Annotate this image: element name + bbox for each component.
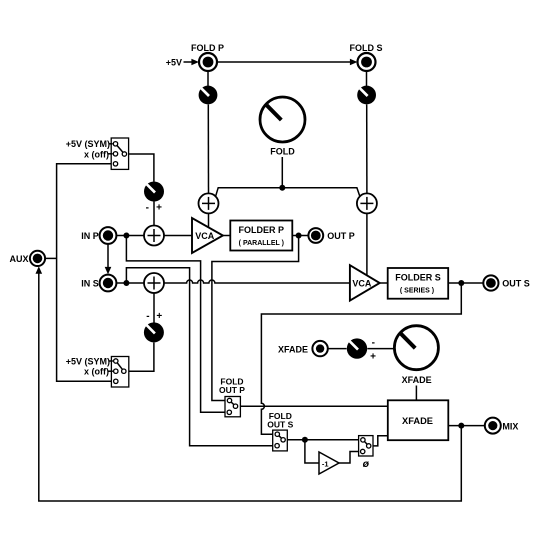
attenuverter knob SYM P [144, 182, 164, 202]
wire S summer to VCA S (hops over three verticals) [164, 280, 350, 283]
wire FOLDER P to OUT P [292, 235, 308, 237]
wire P CV summer to VCA P [208, 213, 210, 227]
attenuator knob FOLD S [357, 86, 376, 105]
wire FOLD knob to CV bus [281, 157, 283, 188]
wire SYM S switch output to attenuverter [129, 343, 154, 372]
svg-text:FOLD P: FOLD P [191, 43, 224, 53]
wire FOLD P jack to attenuator [207, 71, 209, 86]
wire MIX feedback to AUX (arrow) [36, 266, 462, 501]
switch SYM P [111, 138, 128, 169]
label - + XFADE [370, 338, 376, 363]
svg-text:-: - [372, 338, 375, 349]
svg-text:+5V: +5V [166, 57, 182, 67]
svg-text:( SERIES ): ( SERIES ) [400, 287, 434, 294]
wire junction to inverter [305, 440, 319, 463]
wire FOLD OUT P switch output to XFADE box [240, 405, 387, 407]
label x (off) bottom [84, 367, 113, 377]
svg-text:IN P: IN P [81, 231, 99, 241]
jack AUX [30, 251, 45, 266]
wire +5V arrow into FOLD P [184, 59, 199, 66]
attenuverter knob SYM S [144, 322, 164, 342]
svg-text:VCA: VCA [352, 278, 372, 288]
op-amp VCA S [350, 265, 380, 300]
wire FOLD P attenuator to P CV summer [207, 105, 209, 194]
wire AUX bus to both SYM switches [57, 164, 112, 381]
svg-text:XFADE: XFADE [402, 416, 433, 426]
node IN S junction [123, 280, 129, 286]
svg-text:x (off): x (off) [84, 149, 109, 159]
svg-text:x (off): x (off) [84, 367, 109, 377]
switch FOLD OUT P [225, 397, 240, 417]
node CV bus junction [279, 185, 285, 191]
svg-text:FOLDER P: FOLDER P [239, 225, 285, 235]
svg-text:+: + [156, 311, 162, 322]
wire SYM P attenuverter to input summer [153, 202, 155, 226]
wire XFADE knob to XFADE box [415, 386, 417, 401]
svg-text:XFADE: XFADE [278, 344, 308, 354]
svg-text:-1: -1 [322, 459, 329, 468]
wire XFADE box to MIX [448, 425, 484, 427]
label +5V (SYM) top [66, 139, 113, 149]
wire FOLD OUT S switch output to phase switch [287, 439, 358, 441]
label +5V (SYM) bottom [66, 356, 113, 366]
jack IN P [100, 227, 117, 244]
attenuverter knob XFADE [347, 338, 367, 358]
wire IN P normalled to IN S (arrow) [105, 244, 112, 274]
svg-text:OUT S: OUT S [502, 279, 530, 289]
wire FOLD S attenuator to S CV summer [366, 105, 368, 194]
wire CV bus to both summers [216, 188, 360, 197]
knob FOLD [260, 97, 305, 142]
jack FOLD S [358, 53, 376, 71]
label - + SYM P [146, 203, 162, 214]
wire FOLD S jack to attenuator [366, 71, 368, 86]
summer P CV [199, 193, 219, 213]
wire AUX jack to bus [45, 257, 56, 259]
wire inverter to phase switch bottom input [339, 452, 359, 464]
svg-text:+: + [156, 203, 162, 214]
knob XFADE [394, 326, 438, 370]
box FOLDER S [388, 268, 449, 299]
wire VCA P to FOLDER P [223, 235, 230, 237]
wire XFADE jack to attenuverter [328, 348, 347, 350]
jack FOLD P [199, 53, 217, 71]
switch SYM S [111, 357, 128, 388]
label - + SYM S [146, 311, 162, 322]
summer S input [144, 273, 164, 293]
node OUT S junction [458, 280, 464, 286]
svg-text:+5V (SYM): +5V (SYM) [66, 139, 110, 149]
jack MIX [485, 418, 501, 434]
wire SYM S attenuverter to input summer [153, 293, 155, 323]
wire FOLD P to FOLD S (normalled, arrow) [217, 59, 357, 66]
wire S CV summer to VCA S [366, 213, 368, 275]
jack IN S [100, 275, 117, 292]
svg-text:( PARALLEL ): ( PARALLEL ) [239, 240, 284, 247]
wire OUT S feedback to FOLD OUT S switch top input (hops over xfade wire) [261, 283, 461, 434]
wire FOLDER S to OUT S [448, 282, 483, 284]
summer S CV [357, 193, 377, 213]
wire IN S to input summer [116, 282, 144, 284]
svg-text:OUT P: OUT P [327, 231, 355, 241]
label FOLD OUT P [219, 377, 245, 395]
jack OUT P [308, 228, 323, 243]
wire IN P to input summer [116, 235, 144, 237]
svg-text:XFADE: XFADE [402, 375, 432, 385]
svg-text:ø: ø [363, 458, 370, 470]
switch phase [359, 436, 373, 456]
jack OUT S [483, 275, 498, 290]
box XFADE [388, 400, 449, 440]
summer P input [144, 226, 164, 246]
svg-text:OUT P: OUT P [219, 385, 245, 395]
wire phase switch output to XFADE box [373, 436, 388, 446]
svg-text:+: + [370, 351, 376, 362]
label FOLD OUT S [267, 411, 293, 430]
svg-text:-: - [146, 203, 149, 214]
attenuator knob FOLD P [199, 86, 218, 105]
svg-text:FOLDER S: FOLDER S [395, 273, 441, 283]
node MIX junction [458, 423, 464, 429]
wire IN S tap to FOLD OUT S switch bottom input [126, 268, 272, 446]
svg-text:VCA: VCA [195, 231, 215, 241]
svg-text:AUX: AUX [9, 254, 28, 264]
svg-text:FOLD: FOLD [270, 147, 295, 157]
op-amp inverter -1 [319, 452, 339, 474]
svg-text:-: - [146, 311, 149, 322]
label x (off) top [84, 149, 113, 159]
svg-text:IN S: IN S [81, 279, 99, 289]
op-amp VCA P [192, 218, 223, 253]
wire XFADE attenuverter to knob [367, 348, 394, 350]
wire OUT P tap to FOLD OUT P switch top input [212, 236, 299, 401]
node FOLD OUT S output junction [302, 437, 308, 443]
wire P summer to VCA P [164, 235, 192, 237]
wire SYM P switch output to attenuverter [129, 154, 154, 182]
switch FOLD OUT S [273, 430, 288, 451]
node OUT P junction [296, 233, 302, 239]
wire VCA S to FOLDER S [380, 282, 388, 284]
jack XFADE [312, 341, 327, 356]
wire IN P tap to FOLD OUT P switch bottom input [126, 236, 225, 413]
svg-text:OUT S: OUT S [267, 420, 293, 430]
svg-text:+5V (SYM): +5V (SYM) [66, 356, 110, 366]
node IN P junction [123, 233, 129, 239]
box FOLDER P [230, 221, 292, 251]
svg-text:MIX: MIX [502, 422, 518, 432]
svg-text:FOLD S: FOLD S [350, 43, 383, 53]
